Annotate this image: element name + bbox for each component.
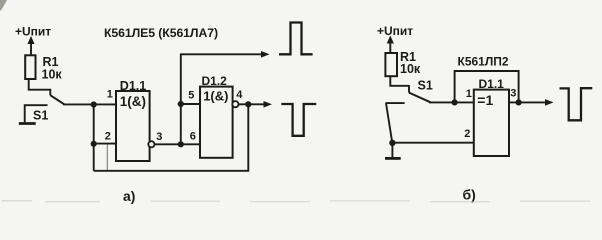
svg-text:б): б) — [463, 187, 476, 203]
power arrow (b) — [387, 36, 394, 54]
node junction pin4 feedback — [245, 101, 251, 107]
wire resistor to switch contact (b) — [390, 76, 409, 92]
wire mid vertical to top — [180, 54, 182, 144]
node junction pin1 (b) — [452, 99, 458, 105]
output waveform (negative pulse) (b) — [560, 88, 593, 120]
svg-text:а): а) — [123, 188, 135, 204]
wire pin3 to pin6 — [155, 143, 201, 145]
svg-text:D1.1: D1.1 — [479, 77, 505, 91]
wire to pin 2 (b) — [392, 142, 474, 144]
svg-text:1: 1 — [107, 89, 113, 101]
svg-text:+Uпит: +Uпит — [15, 25, 51, 39]
svg-text:=1: =1 — [477, 92, 493, 108]
ground (a) — [19, 122, 36, 125]
wire short vertical pin2 to bottom line (a) — [106, 145, 108, 171]
output bubble D1.2 — [232, 101, 238, 107]
gate D1.1 (b) — [474, 90, 509, 156]
wire top output with arrow — [180, 51, 270, 58]
svg-text:6: 6 — [190, 131, 196, 143]
svg-text:3: 3 — [156, 131, 162, 143]
svg-text:1(&): 1(&) — [203, 88, 228, 103]
svg-text:4: 4 — [236, 89, 243, 101]
svg-text:К561ЛЕ5 (К561ЛА7): К561ЛЕ5 (К561ЛА7) — [104, 26, 218, 40]
gate D1.2 (a) — [200, 87, 233, 158]
wire to pin 2 (a) — [94, 143, 117, 145]
switch S1 lever (b) — [409, 93, 431, 103]
ground stem (b) — [391, 143, 393, 157]
node junction pin3/pin5 — [178, 141, 184, 147]
ground contact line (a) — [25, 105, 48, 122]
switch S1 lever (a) — [50, 95, 64, 104]
wire switch to pin1 (b) — [429, 101, 475, 103]
output bubble D1.1 — [148, 141, 154, 147]
svg-text:1(&): 1(&) — [120, 94, 146, 109]
node junction ground/pin2 (b) — [389, 140, 395, 146]
ground (b) — [385, 157, 401, 160]
scan corner artifact top-left — [0, 0, 7, 11]
scan noise bottom strip — [2, 200, 590, 202]
svg-text:+Uпит: +Uпит — [377, 24, 413, 38]
wire resistor to switch contact (a) — [29, 79, 51, 95]
svg-text:К561ЛП2: К561ЛП2 — [458, 55, 509, 69]
feedback bracket over gate (b) — [455, 71, 519, 102]
svg-text:1: 1 — [466, 88, 472, 100]
resistor R1 (b) — [385, 53, 397, 76]
output waveform 2 (negative pulse) — [281, 104, 316, 136]
ground contact line (b) — [386, 102, 405, 104]
node junction switch (a) — [91, 101, 97, 107]
svg-text:10к: 10к — [42, 68, 63, 82]
gate D1.1 (a) — [116, 91, 150, 161]
wire pin4 output with arrow — [239, 101, 273, 108]
wire bottom feedback loop (a) — [94, 104, 249, 170]
node junction pin2 (a) — [91, 141, 97, 147]
svg-text:3: 3 — [510, 87, 516, 99]
wire switch to D1.1 pin1 (a) — [63, 103, 117, 105]
svg-text:S1: S1 — [418, 79, 433, 93]
resistor R1 (a) — [25, 55, 35, 79]
wire pin3 output with arrow (b) — [509, 99, 554, 106]
svg-text:D1.2: D1.2 — [202, 74, 228, 88]
output waveform 1 (positive pulse) — [279, 23, 313, 55]
power arrow (a) — [27, 36, 34, 56]
node junction pin5 — [178, 101, 184, 107]
wire contact down to ground node (b) — [386, 103, 392, 143]
svg-text:2: 2 — [464, 128, 470, 140]
svg-text:10к: 10к — [400, 62, 421, 76]
svg-text:D1.1: D1.1 — [120, 79, 146, 93]
wire left vertical (a) — [93, 105, 95, 171]
svg-text:2: 2 — [105, 131, 111, 143]
node junction pin3 (b) — [516, 99, 522, 105]
svg-text:S1: S1 — [33, 109, 48, 123]
wire to pin 5 — [181, 103, 201, 105]
svg-text:5: 5 — [188, 89, 194, 101]
